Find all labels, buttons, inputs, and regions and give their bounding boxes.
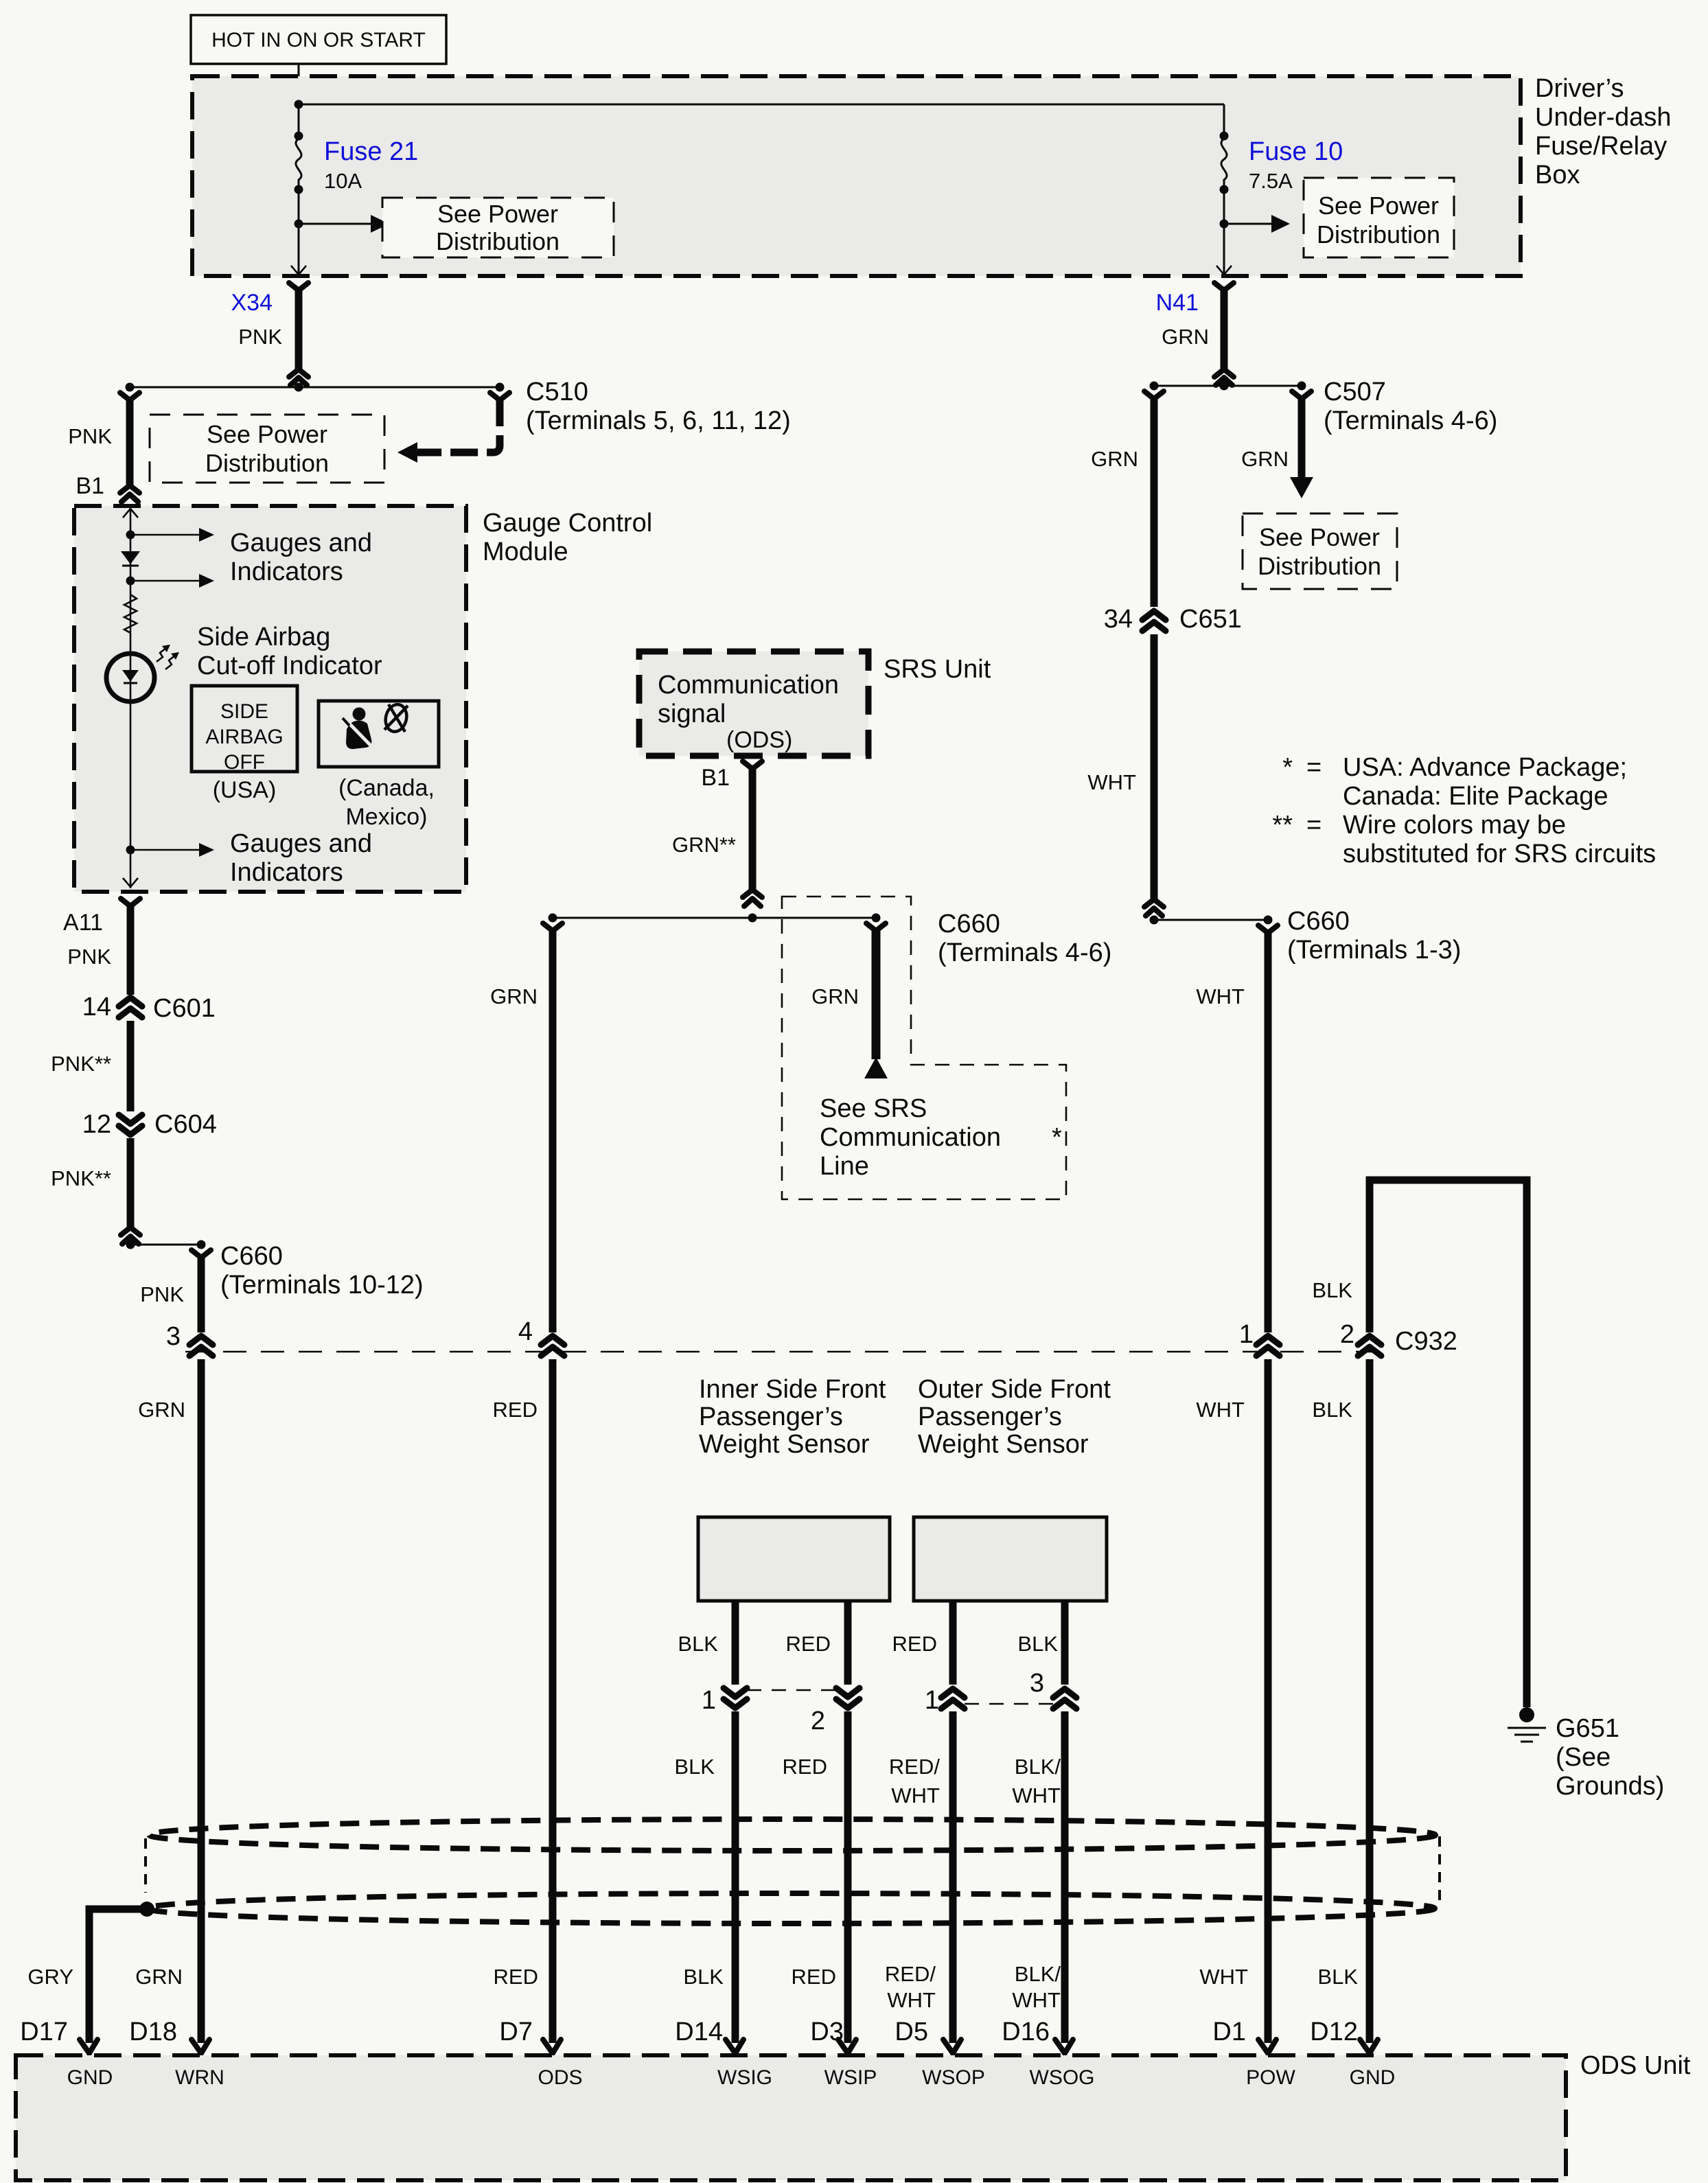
svg-text:See SRS: See SRS <box>820 1094 927 1123</box>
svg-text:D17: D17 <box>20 2018 68 2046</box>
node junction dot WHT <box>1150 916 1159 925</box>
svg-text:PNK: PNK <box>238 325 282 349</box>
svg-text:RED/: RED/ <box>889 1755 940 1779</box>
svg-text:Distribution: Distribution <box>1317 220 1440 249</box>
svg-text:1: 1 <box>1239 1320 1254 1349</box>
svg-text:See Power: See Power <box>1259 523 1380 551</box>
svg-text:Mexico): Mexico) <box>345 804 427 830</box>
pin D1 entry arms <box>1258 2040 1276 2053</box>
svg-text:PNK: PNK <box>67 945 111 969</box>
svg-text:A11: A11 <box>63 910 103 936</box>
svg-text:WHT: WHT <box>1012 1783 1061 1807</box>
svg-text:See Power: See Power <box>1318 192 1439 220</box>
value label Fuse 21 10A <box>324 137 418 193</box>
svg-text:GRN: GRN <box>1162 325 1209 349</box>
label Driver's Under-dash Fuse/Relay Box <box>1535 74 1672 189</box>
svg-text:Distribution: Distribution <box>1258 552 1381 580</box>
svg-text:WRN: WRN <box>175 2066 224 2089</box>
svg-text:PNK: PNK <box>140 1282 184 1306</box>
wire GRN** from SRS pin B1 <box>743 761 762 906</box>
node See Power Distribution reference (fuse 21) <box>382 198 614 257</box>
svg-text:C604: C604 <box>154 1110 217 1139</box>
wire dashed link inner sensor connector <box>747 1689 838 1691</box>
svg-text:RED: RED <box>783 1755 827 1779</box>
svg-text:4: 4 <box>518 1317 533 1346</box>
label BLK/WHT (above ODS D16) <box>1012 1962 1061 2012</box>
op ODS Unit box <box>16 2055 1566 2180</box>
svg-text:2: 2 <box>811 1707 825 1735</box>
svg-text:Fuse/Relay: Fuse/Relay <box>1535 132 1667 161</box>
wire PNK down to gauge control module pin B1 <box>120 393 139 502</box>
svg-text:GRN: GRN <box>1091 447 1138 471</box>
svg-text:signal: signal <box>658 700 726 728</box>
label Side Airbag Cut-off Indicator <box>197 623 382 680</box>
svg-text:WHT: WHT <box>891 1783 940 1807</box>
wire fuse 10 feed down from bus <box>1223 104 1225 137</box>
pin D3 entry arms <box>838 2040 856 2053</box>
wire branch line to C651 and C507 <box>1154 385 1302 387</box>
node shield loop ellipse lower <box>147 1893 1435 1924</box>
wire fuse 21 down to X34 exit arrow <box>291 224 306 275</box>
svg-text:POW: POW <box>1246 2066 1295 2089</box>
connector X34 (PNK wire from fuse box) <box>289 283 308 385</box>
svg-text:Communication: Communication <box>820 1123 1001 1152</box>
LED side airbag cut-off indicator <box>106 645 179 702</box>
svg-text:(Terminals 1-3): (Terminals 1-3) <box>1287 936 1461 965</box>
svg-text:WSOP: WSOP <box>922 2066 985 2089</box>
diode D (series) <box>121 551 140 566</box>
pin D7 entry arms <box>543 2040 561 2053</box>
svg-text:Side Airbag: Side Airbag <box>197 623 330 651</box>
connector outer sensor pin 3 chevrons <box>1053 1689 1076 1709</box>
label Outer Side Front Passenger's Weight Sensor <box>918 1375 1111 1459</box>
svg-text:BLK: BLK <box>1317 1965 1358 1989</box>
svg-text:GRN: GRN <box>138 1398 185 1422</box>
svg-text:D7: D7 <box>499 2018 533 2046</box>
svg-text:(Canada,: (Canada, <box>338 775 435 801</box>
svg-text:(Terminals 4-6): (Terminals 4-6) <box>938 938 1111 967</box>
svg-text:=: = <box>1306 753 1322 782</box>
svg-text:(USA): (USA) <box>213 777 277 803</box>
svg-text:Fuse 21: Fuse 21 <box>324 137 418 166</box>
svg-text:GRN: GRN <box>135 1965 183 1989</box>
node dot at C651 branch <box>1150 382 1159 391</box>
wire BLK from inner sensor <box>732 1601 739 1685</box>
wire bus inside fuse box from fuse 21 to fuse 10 <box>299 104 1224 106</box>
svg-text:Wire colors may be: Wire colors may be <box>1343 811 1566 840</box>
node dot to gauges branch 2 <box>126 577 135 586</box>
wire GRN down to C507 arrow <box>1290 391 1313 498</box>
svg-text:D5: D5 <box>895 2018 928 2046</box>
svg-text:C660: C660 <box>220 1242 283 1271</box>
svg-text:Inner Side Front: Inner Side Front <box>699 1375 886 1404</box>
svg-text:Driver’s: Driver’s <box>1535 74 1624 103</box>
pin D17 entry arms <box>80 2040 97 2053</box>
svg-text:Gauges and: Gauges and <box>230 829 372 858</box>
op Gauge Control Module box <box>74 506 466 892</box>
svg-text:See Power: See Power <box>437 200 558 228</box>
node shield junction dot <box>139 1902 154 1917</box>
svg-text:10A: 10A <box>324 169 362 193</box>
svg-text:X34: X34 <box>231 290 273 316</box>
svg-text:C601: C601 <box>153 994 216 1023</box>
node dot to gauges branch 3 <box>126 846 135 855</box>
svg-text:(Terminals 10-12): (Terminals 10-12) <box>220 1271 424 1300</box>
node See SRS Communication Line dashed region <box>782 897 1066 1199</box>
wire jog to C660 (Terminals 1-3) <box>1154 919 1268 921</box>
svg-text:BLK/: BLK/ <box>1015 1755 1061 1779</box>
svg-text:Passenger’s: Passenger’s <box>699 1402 843 1431</box>
svg-text:WSIP: WSIP <box>824 2066 877 2089</box>
wire BLK from outer sensor <box>1061 1601 1069 1685</box>
svg-text:N41: N41 <box>1156 290 1199 316</box>
svg-text:BLK: BLK <box>1312 1278 1352 1302</box>
label C660 (Terminals 10-12) <box>220 1242 424 1300</box>
wire BLK/WHT outer sensor to ODS pin D16 <box>1061 1711 1069 2043</box>
wire connector plane dashed line C660/C932 <box>185 1351 1380 1353</box>
label Gauges and Indicators (top) <box>230 529 372 586</box>
connector C660 pin 3 chevrons <box>189 1336 213 1356</box>
wire RED/WHT outer sensor to ODS pin D5 <box>949 1711 957 2043</box>
svg-text:Outer Side Front: Outer Side Front <box>918 1375 1111 1404</box>
connector C660 (Terminals 10-12) drop wire <box>192 1250 211 1332</box>
wire PNK** between C604 and C660 <box>121 1138 140 1244</box>
svg-text:D14: D14 <box>675 2018 723 2046</box>
node seat belt telltale icon box (Canada, Mexico) <box>319 701 439 767</box>
wire from HOT box into fuse/relay box <box>298 64 300 104</box>
svg-text:C660: C660 <box>1287 907 1350 936</box>
resistor R (indicator series) <box>124 594 137 633</box>
wire jog to C660 <box>130 1244 201 1246</box>
svg-text:(ODS): (ODS) <box>726 727 792 753</box>
wire RED from outer sensor <box>949 1601 957 1685</box>
svg-text:BLK/: BLK/ <box>1015 1962 1061 1986</box>
label C507 (Terminals 4-6) <box>1324 378 1497 435</box>
label (Canada, Mexico) <box>338 775 435 830</box>
wire GRN down to C651 <box>1144 391 1164 607</box>
wire BLK inner sensor to ODS pin D14 <box>732 1711 739 2043</box>
label footnote legend <box>1272 753 1656 868</box>
node See Power Distribution reference (C510) <box>150 415 384 483</box>
ground G651 <box>1508 1707 1546 1742</box>
svg-text:BLK: BLK <box>1017 1632 1058 1656</box>
connector outer sensor pin 1 chevrons <box>941 1689 965 1709</box>
node junction dot below fuse 21 <box>295 220 303 229</box>
svg-text:USA: Advance Package;: USA: Advance Package; <box>1343 753 1627 782</box>
svg-text:D18: D18 <box>129 2018 177 2046</box>
label C660 (Terminals 1-3) <box>1287 907 1461 965</box>
pin D12 entry arms <box>1360 2040 1378 2053</box>
wire dashed right shield link <box>1438 1836 1441 1907</box>
svg-text:ODS Unit: ODS Unit <box>1580 2051 1691 2080</box>
svg-text:(Terminals 4-6): (Terminals 4-6) <box>1324 406 1497 435</box>
svg-text:SRS Unit: SRS Unit <box>884 655 991 684</box>
svg-text:C510: C510 <box>526 378 588 406</box>
svg-text:WHT: WHT <box>1087 770 1136 794</box>
node dot at B1 branch <box>126 383 135 392</box>
wire WHT from C651 to C660 junction <box>1144 634 1164 916</box>
pin D5 entry arms <box>943 2040 961 2053</box>
label Gauges and Indicators (bottom) <box>230 829 372 887</box>
svg-text:C651: C651 <box>1179 605 1242 634</box>
svg-text:C507: C507 <box>1324 378 1386 406</box>
connector C660 pin 4 chevrons <box>541 1336 564 1356</box>
svg-text:PNK**: PNK** <box>51 1052 111 1076</box>
label RED/WHT (above ODS D5) <box>885 1962 936 2012</box>
sensor inner side front passenger's weight sensor box <box>698 1517 890 1601</box>
wire WHT down to ODS pin D1 <box>1265 1359 1272 2043</box>
wire arrow to Gauges and Indicators (top) <box>130 528 214 542</box>
wire RED down to ODS pin D7 <box>549 1359 557 2043</box>
svg-text:Gauge Control: Gauge Control <box>483 509 652 538</box>
wire arrow to Gauges and Indicators (bottom) <box>130 843 214 857</box>
svg-text:3: 3 <box>166 1322 181 1351</box>
svg-text:=: = <box>1306 811 1322 840</box>
svg-text:Gauges and: Gauges and <box>230 529 372 557</box>
svg-text:G651: G651 <box>1556 1714 1619 1743</box>
svg-text:GRN: GRN <box>490 984 538 1008</box>
svg-text:HOT IN ON OR START: HOT IN ON OR START <box>211 29 426 51</box>
wire BLK down from C932 to ODS pin D12 <box>1366 1359 1374 2043</box>
svg-text:RED: RED <box>786 1632 831 1656</box>
svg-text:ODS: ODS <box>538 2066 582 2089</box>
node See Power Distribution reference (fuse 10) <box>1304 178 1454 257</box>
wire branch line to B1 and C510 <box>130 386 500 389</box>
svg-text:D1: D1 <box>1212 2018 1246 2046</box>
value label Fuse 10 7.5A <box>1249 137 1343 193</box>
svg-text:Grounds): Grounds) <box>1556 1772 1664 1801</box>
wire dashed left shield link <box>144 1838 147 1893</box>
node dot to gauges branch 1 <box>126 531 135 540</box>
svg-text:D16: D16 <box>1002 2018 1050 2046</box>
label Inner Side Front Passenger's Weight Sensor <box>699 1375 886 1459</box>
connector C932 pin 2 chevrons <box>1358 1336 1381 1356</box>
svg-text:1: 1 <box>702 1686 716 1715</box>
svg-text:BLK: BLK <box>674 1755 715 1779</box>
svg-text:(See: (See <box>1556 1743 1611 1772</box>
svg-text:Distribution: Distribution <box>205 449 329 477</box>
svg-text:2: 2 <box>1340 1320 1354 1349</box>
wire GRN stub to SRS communication line <box>864 923 888 1078</box>
label G651 (See Grounds) <box>1556 1714 1664 1801</box>
svg-text:Under-dash: Under-dash <box>1535 103 1672 132</box>
svg-text:See Power: See Power <box>207 420 327 448</box>
fuse F10 (Fuse 10 7.5A) <box>1220 104 1229 224</box>
wire arrow to See Power Distribution (fuse 21) <box>299 215 389 233</box>
node junction dot under C604 wire <box>126 1240 135 1249</box>
svg-text:Weight Sensor: Weight Sensor <box>918 1430 1089 1459</box>
wire BLK loop from C932 pin 2 to ground G651 <box>1370 1180 1527 1707</box>
wire branch line GRN to C660 pins <box>553 917 876 919</box>
Driver's Under-dash Fuse/Relay Box <box>192 76 1521 276</box>
node SIDE AIRBAG OFF telltale box (USA) <box>192 686 297 774</box>
svg-text:RED: RED <box>892 1632 937 1656</box>
wire PNK** between C601 and C604 <box>127 1021 135 1111</box>
svg-text:GRN**: GRN** <box>672 833 736 857</box>
svg-text:GND: GND <box>67 2066 113 2089</box>
node junction dot at fuse 21 feed <box>295 100 303 109</box>
wire exit arrow at A11 <box>123 878 138 887</box>
svg-text:Distribution: Distribution <box>436 227 559 255</box>
svg-text:*: * <box>1282 753 1293 782</box>
node junction dot below fuse 10 <box>1220 220 1229 229</box>
node dot at C660 drop <box>197 1240 206 1249</box>
svg-text:12: 12 <box>82 1110 111 1139</box>
svg-text:OFF: OFF <box>224 751 265 774</box>
svg-text:Module: Module <box>483 538 568 566</box>
svg-text:SIDE: SIDE <box>220 700 268 723</box>
svg-text:BLK: BLK <box>1312 1398 1352 1422</box>
wire arrow to See Power Distribution (fuse 10) <box>1224 215 1290 233</box>
svg-text:D12: D12 <box>1310 2018 1358 2046</box>
svg-text:Indicators: Indicators <box>230 557 343 586</box>
wire RED from inner sensor <box>844 1601 852 1685</box>
svg-text:GRY: GRY <box>27 1965 73 1989</box>
svg-text:C660: C660 <box>938 910 1000 938</box>
svg-text:14: 14 <box>82 993 111 1021</box>
label Gauge Control Module <box>483 509 652 566</box>
svg-text:(Terminals 5, 6, 11, 12): (Terminals 5, 6, 11, 12) <box>526 406 791 435</box>
node See Power Distribution reference (C507) <box>1243 513 1397 589</box>
node dot at C507 branch <box>1297 382 1306 391</box>
node dot at C510 branch <box>496 383 505 392</box>
svg-text:PNK**: PNK** <box>51 1166 111 1190</box>
connector C510 dashed branch with arrow <box>397 393 509 463</box>
wire PNK from gauge module pin A11 <box>121 899 140 995</box>
label C660 (Terminals 4-6) <box>938 910 1111 967</box>
svg-text:Cut-off Indicator: Cut-off Indicator <box>197 651 382 680</box>
svg-text:Fuse 10: Fuse 10 <box>1249 137 1343 166</box>
wire dashed link outer sensor connector <box>965 1703 1054 1705</box>
svg-text:GRN: GRN <box>811 984 859 1008</box>
label C510 (Terminals 5, 6, 11, 12) <box>526 378 791 435</box>
svg-text:*: * <box>1052 1123 1062 1152</box>
connector C601 pin 14 <box>119 997 142 1017</box>
node junction dot B1 <box>748 914 757 923</box>
node HOT IN ON OR START label box <box>191 15 446 64</box>
node dot at GRN drop to SRS comm line <box>872 914 881 923</box>
svg-text:7.5A: 7.5A <box>1249 169 1293 193</box>
svg-text:C932: C932 <box>1395 1327 1457 1356</box>
svg-text:Canada: Elite Package: Canada: Elite Package <box>1343 782 1608 811</box>
wire entry arrow at B1 <box>123 509 138 518</box>
svg-text:WHT: WHT <box>1012 1988 1061 2012</box>
svg-text:B1: B1 <box>701 765 730 791</box>
wire GRN down to ODS pin D18 <box>198 1359 205 2043</box>
svg-text:PNK: PNK <box>68 424 112 448</box>
svg-text:34: 34 <box>1104 605 1133 634</box>
svg-text:Box: Box <box>1535 161 1580 189</box>
pin D18 entry arms <box>192 2040 209 2053</box>
svg-text:Line: Line <box>820 1152 869 1181</box>
svg-text:BLK: BLK <box>678 1632 718 1656</box>
connector C604 pin 12 <box>119 1115 142 1135</box>
node shield loop ellipse upper <box>149 1819 1435 1851</box>
svg-text:WSIG: WSIG <box>717 2066 772 2089</box>
pin D16 entry arms <box>1055 2040 1073 2053</box>
svg-text:Weight Sensor: Weight Sensor <box>699 1430 870 1459</box>
sensor outer side front passenger's weight sensor box <box>914 1517 1107 1601</box>
connector C660 (Terminals 1-3) drop wire <box>1258 925 1278 1332</box>
svg-text:WSOG: WSOG <box>1030 2066 1095 2089</box>
svg-text:substituted for SRS circuits: substituted for SRS circuits <box>1343 840 1656 868</box>
pin D14 entry arms <box>726 2040 743 2053</box>
wire arrow to Gauges and Indicators (second) <box>130 574 214 588</box>
svg-text:RED: RED <box>792 1965 836 1989</box>
op SRS Unit box (Communication signal ODS) <box>639 651 868 756</box>
svg-text:Communication: Communication <box>658 671 839 700</box>
svg-text:GRN: GRN <box>1241 447 1289 471</box>
svg-text:WHT: WHT <box>1196 984 1245 1008</box>
node junction dot X34 to branch line <box>295 383 303 392</box>
fuse F21 (Fuse 21 10A) <box>295 104 303 224</box>
svg-text:RED: RED <box>494 1965 538 1989</box>
svg-text:WHT: WHT <box>1196 1398 1245 1422</box>
svg-text:Indicators: Indicators <box>230 858 343 887</box>
svg-text:WHT: WHT <box>1199 1965 1248 1989</box>
connector C932 pin 1 chevrons <box>1256 1336 1280 1356</box>
label RED/WHT <box>889 1755 940 1807</box>
svg-text:BLK: BLK <box>683 1965 724 1989</box>
wire GRY from shield dot to ODS pin D17 <box>89 1909 143 2043</box>
svg-text:RED/: RED/ <box>885 1962 936 1986</box>
svg-text:AIRBAG: AIRBAG <box>205 726 283 748</box>
svg-text:3: 3 <box>1030 1669 1044 1698</box>
svg-text:Passenger’s: Passenger’s <box>918 1402 1062 1431</box>
wire internal vertical B1 to A11 <box>130 507 132 888</box>
svg-text:GND: GND <box>1350 2066 1396 2089</box>
svg-text:1: 1 <box>925 1686 939 1715</box>
node junction dot N41 branch <box>1220 382 1229 391</box>
connector C651 pin 34 <box>1142 611 1166 631</box>
wire GRN down to C660 pin 4 <box>543 923 562 1332</box>
node dot at C660 1-3 drop <box>1264 916 1273 925</box>
node dot at GRN drop to C660 pin 4 <box>549 914 557 923</box>
connector inner sensor pin 1 chevrons <box>724 1688 747 1708</box>
label BLK/WHT <box>1012 1755 1061 1807</box>
wire fuse 10 down to N41 exit arrow <box>1216 224 1232 275</box>
connector N41 (GRN wire from fuse box) <box>1214 283 1234 385</box>
connector inner sensor pin 2 chevrons <box>836 1688 859 1708</box>
svg-text:B1: B1 <box>76 473 104 499</box>
svg-text:WHT: WHT <box>887 1988 936 2012</box>
svg-text:**: ** <box>1272 811 1293 840</box>
wire RED inner sensor to ODS pin D3 <box>844 1711 852 2043</box>
svg-text:RED: RED <box>493 1398 538 1422</box>
